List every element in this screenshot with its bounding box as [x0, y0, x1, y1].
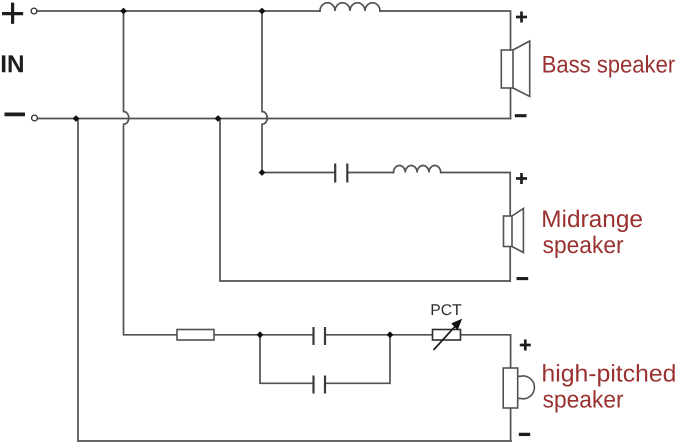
label IN — [2, 55, 23, 72]
inductor L1 — [320, 3, 380, 11]
tweeter plus symbol — [520, 340, 531, 351]
wire tweeter minus lead — [510, 408, 512, 441]
tweeter minus symbol — [519, 433, 530, 436]
wire C3 to node B riser — [325, 335, 390, 384]
input minus symbol — [5, 113, 26, 117]
junction dot node A — [257, 331, 264, 338]
wire PCT to tweeter plus lead — [461, 335, 511, 368]
input terminal circle plus — [31, 8, 37, 14]
label Bass speaker — [544, 55, 675, 77]
midrange plus symbol — [516, 173, 527, 184]
label high-pitched speaker — [543, 364, 675, 386]
bass plus symbol — [516, 12, 527, 23]
junction dot top rail left — [120, 8, 127, 15]
junction dot top rail right — [259, 8, 266, 15]
junction dot minus rail mid — [215, 115, 222, 122]
bass minus symbol — [515, 114, 527, 117]
capacitor C3 — [314, 376, 326, 394]
junction dot node B — [387, 331, 394, 338]
junction dot minus rail left — [73, 115, 80, 122]
junction dot midrange tap node — [259, 169, 266, 176]
midrange minus symbol — [517, 277, 529, 280]
bass speaker symbol LS1 — [501, 41, 529, 97]
wire top rail plus — [37, 10, 320, 12]
input plus symbol — [2, 3, 23, 24]
capacitor C2 — [314, 327, 326, 345]
wire C1 to inductor L2 — [348, 172, 394, 174]
resistor R1 — [177, 330, 214, 341]
midrange speaker symbol LS2 — [504, 209, 524, 253]
wire left minus drop to bottom rail — [78, 119, 511, 442]
tweeter speaker symbol LS3 — [503, 368, 534, 408]
wire vertical branch to resistor with hop over minus rail — [124, 11, 178, 335]
wire node to capacitor C1 — [262, 172, 335, 174]
input terminal circle minus — [32, 115, 38, 121]
variable attenuator PCT arrow — [434, 319, 463, 350]
capacitor C1 — [335, 164, 347, 183]
wire bass speaker minus lead — [510, 88, 512, 119]
wire L1 to bass speaker — [380, 11, 511, 50]
label PCT — [432, 304, 462, 315]
wire midrange speaker minus return — [220, 119, 510, 282]
variable attenuator PCT box — [433, 330, 461, 341]
wire resistor to node A — [214, 334, 314, 336]
wire vertical branch to midrange cap with hop over minus rail — [262, 11, 267, 173]
wire minus rail — [38, 118, 511, 120]
wire node A down to bottom capacitor C3 — [260, 335, 314, 384]
wire L2 to midrange speaker — [441, 173, 511, 217]
inductor L2 — [394, 166, 441, 173]
label Midrange speaker — [543, 210, 642, 232]
wire top capacitor C2 to node B — [325, 334, 433, 336]
